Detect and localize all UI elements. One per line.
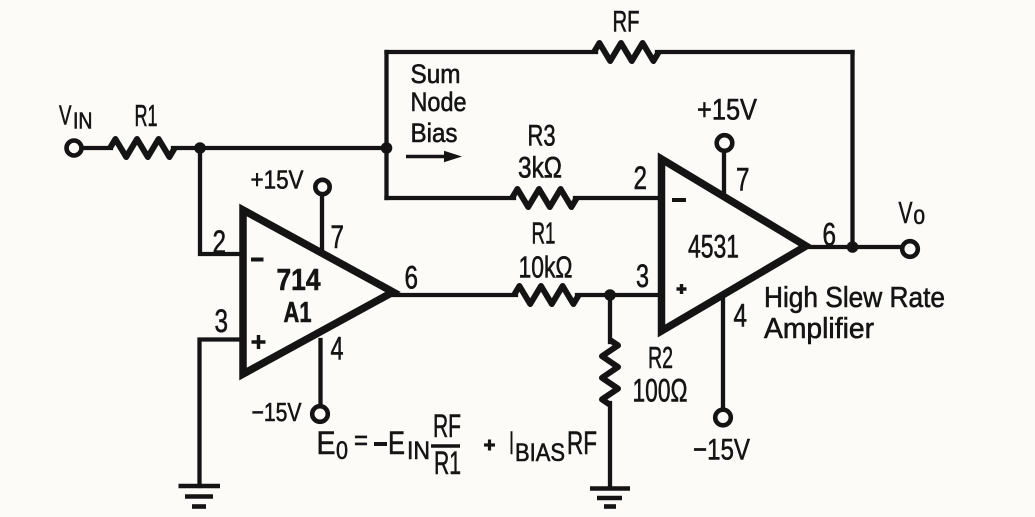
wire R2 to ground [608,403,612,488]
svg-text:RF: RF [613,6,640,39]
svg-text:V: V [899,195,913,230]
node V0 output terminal [902,241,918,257]
label Sum Node Bias [411,59,467,148]
label VIN [59,100,93,134]
svg-text:4: 4 [331,331,344,367]
svg-text:IN: IN [73,108,93,134]
node +15V terminal (U2 pin 7) [717,135,733,151]
op-amp U2 4531 [662,159,807,331]
svg-text:714: 714 [277,262,322,297]
wire sum node to R3 [387,196,515,200]
svg-text:E: E [388,425,405,461]
junction at A1 inverting branch [194,142,206,154]
arrow sum node bias [406,151,462,163]
svg-text:4531: 4531 [688,229,739,265]
svg-text:R2: R2 [648,340,673,375]
svg-text:R1: R1 [434,445,461,481]
svg-text:6: 6 [823,217,837,253]
wire R3 to U2 pin 2 [575,196,661,200]
resistor R1 (input) [110,139,175,157]
wire U2 output to V0 [805,245,902,249]
svg-text:0: 0 [336,437,348,465]
svg-text:R3: R3 [528,120,556,153]
minus sign U2 [672,198,686,202]
svg-text:R1: R1 [135,98,158,133]
resistor R3 [512,189,577,207]
svg-text:−15V: −15V [693,434,750,467]
wire sum node vertical (to RF top and R3 bottom) [384,52,388,198]
wire A1 pin 4 to -15V [318,340,322,405]
node junction R2 tap [604,289,616,301]
svg-text:High Slew Rate: High Slew Rate [764,282,945,314]
svg-text:RF: RF [567,425,597,461]
svg-text:7: 7 [736,162,750,198]
wire junction to A1 pin 2 [200,148,243,254]
svg-text:3: 3 [636,258,649,294]
wire R1 10k to U2 pin 3 [577,293,661,297]
resistor R2 [602,340,618,405]
op-amp A1 714 [243,210,393,374]
wire U2 pin 4 to -15V [721,300,725,408]
plus sign A1 [252,335,266,349]
wire A1 output to R1 10k [390,293,516,297]
svg-text:100Ω: 100Ω [633,373,688,409]
svg-text:0: 0 [914,206,926,229]
plus sign U2 [677,284,687,294]
wire top feedback run to RF [387,50,597,54]
label High Slew Rate Amplifier [764,282,945,345]
ground (A1 pin 3) [179,486,221,507]
equation E0 = -EIN RF/R1 + IBIAS RF [317,408,598,481]
svg-text:Sum: Sum [411,59,461,89]
node output junction [847,241,859,253]
svg-text:7: 7 [331,219,345,255]
label V0 [899,195,926,230]
svg-text:I: I [509,425,514,461]
svg-text:4: 4 [734,298,748,334]
node +15V terminal (A1 pin 7) [315,180,329,194]
node -15V terminal (A1 pin 4) [312,406,328,422]
svg-text:Bias: Bias [411,118,458,148]
svg-text:+15V: +15V [251,165,305,195]
svg-text:3: 3 [215,303,229,339]
svg-text:V: V [59,100,72,131]
wire input terminal to R1 [84,146,111,150]
svg-text:2: 2 [634,160,648,196]
svg-text:E: E [317,425,336,461]
minus sign A1 [251,258,264,262]
svg-text:A1: A1 [284,297,312,329]
svg-text:IN: IN [407,437,430,465]
wire A1 pin 3 to ground [200,340,244,487]
node -15V terminal (U2 pin 4) [715,410,731,426]
svg-text:BIAS: BIAS [515,439,565,467]
svg-text:=: = [354,425,368,457]
node sum node junction [381,142,393,154]
wire A1 pin 7 to +15V [320,195,324,251]
svg-text:+15V: +15V [697,94,757,127]
svg-text:6: 6 [405,260,419,296]
wire right feedback vertical [850,52,854,247]
resistor RF [594,43,659,61]
wire junction down to R2 [608,295,612,342]
wire RF to right vertical [657,50,853,54]
svg-text:−15V: −15V [252,397,303,427]
wire R1 to sum node [173,146,388,150]
svg-text:3kΩ: 3kΩ [518,152,562,185]
svg-text:R1: R1 [532,216,556,251]
svg-text:10kΩ: 10kΩ [519,250,573,285]
svg-text:RF: RF [433,408,461,444]
svg-text:2: 2 [213,224,227,260]
node VIN input terminal [67,141,82,156]
wire U2 pin 7 to +15V [722,152,726,194]
ground (R2) [590,489,630,507]
resistor R1 10k [514,286,579,304]
svg-text:Amplifier: Amplifier [764,313,874,345]
svg-text:Node: Node [411,87,467,117]
